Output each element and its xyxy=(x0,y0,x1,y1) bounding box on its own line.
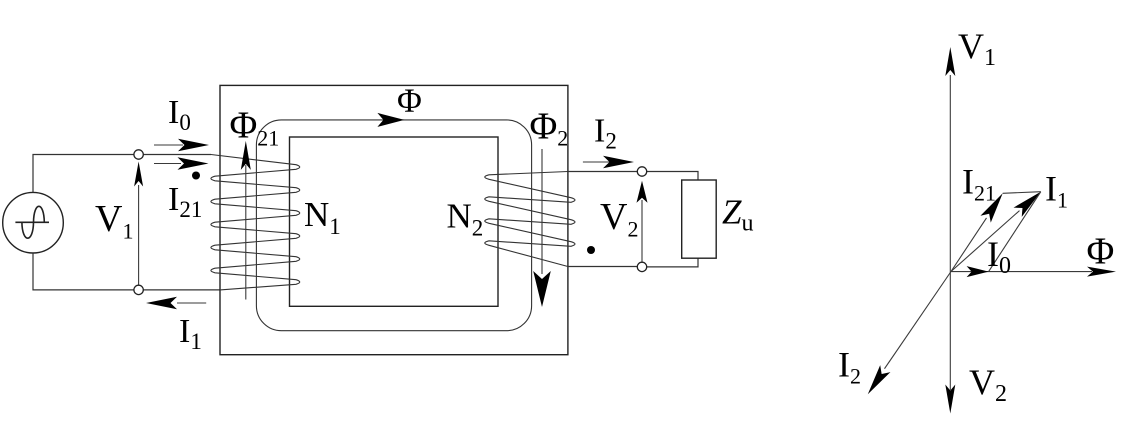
phasor I1 xyxy=(951,211,1020,272)
svg-text:V1: V1 xyxy=(958,26,996,71)
winding N1 xyxy=(211,155,300,290)
svg-text:Φ: Φ xyxy=(1087,231,1115,273)
wire source top xyxy=(33,155,134,193)
flux arrow head on top flux line xyxy=(377,113,404,127)
V2 voltage arrow xyxy=(641,200,643,262)
svg-text:Zu: Zu xyxy=(722,193,753,237)
AC source V1 circle xyxy=(3,192,64,253)
core window rectangle xyxy=(290,137,499,306)
phasor I21 xyxy=(951,218,987,272)
wire top terminal to winding xyxy=(143,154,211,156)
AC source sine symbol xyxy=(15,206,49,238)
flux path rounded rectangle xyxy=(256,120,531,331)
vertical axis V1/V2 xyxy=(949,75,951,390)
svg-text:I21: I21 xyxy=(168,181,202,222)
svg-text:I1: I1 xyxy=(1045,169,1068,213)
svg-text:I2: I2 xyxy=(594,113,617,154)
svg-text:V1: V1 xyxy=(95,198,133,244)
svg-text:I21: I21 xyxy=(962,161,996,205)
svg-text:N1: N1 xyxy=(304,195,341,239)
svg-text:I0: I0 xyxy=(987,234,1011,279)
load Zu rectangle xyxy=(682,180,717,258)
I2 current arrow xyxy=(583,161,612,163)
svg-text:V2: V2 xyxy=(600,196,638,242)
phasor I0 xyxy=(967,266,989,277)
secondary top wire xyxy=(568,172,698,181)
horizontal axis Phi xyxy=(951,271,1092,273)
core outer rectangle xyxy=(220,85,568,354)
polarity dot primary xyxy=(192,172,200,180)
svg-text:I2: I2 xyxy=(838,345,861,389)
phasor I2 xyxy=(885,272,952,369)
svg-text:Φ21: Φ21 xyxy=(230,105,280,151)
I21 current arrow xyxy=(154,163,181,165)
svg-text:Φ: Φ xyxy=(397,83,422,120)
svg-text:I0: I0 xyxy=(168,94,191,135)
Phi21 flux arrow (up) xyxy=(245,165,247,300)
terminal bottom right xyxy=(637,262,646,271)
terminal top left xyxy=(134,150,143,159)
wire source bottom xyxy=(33,253,134,290)
V1 voltage arrow xyxy=(138,185,140,285)
svg-text:Φ2: Φ2 xyxy=(530,106,569,151)
I0 current arrow xyxy=(154,144,183,146)
svg-text:V2: V2 xyxy=(969,362,1007,407)
parallelogram top side xyxy=(1003,192,1041,194)
svg-text:I1: I1 xyxy=(179,313,202,354)
terminal bottom left xyxy=(134,285,143,294)
wire bottom to core xyxy=(143,289,220,291)
terminal top right xyxy=(637,167,646,176)
parallelogram right side xyxy=(989,192,1041,272)
Phi2 flux arrow (down) xyxy=(541,149,543,274)
secondary bottom wire xyxy=(568,258,698,267)
polarity dot secondary xyxy=(587,246,595,254)
svg-text:N2: N2 xyxy=(447,196,484,240)
I1 current arrow (left) xyxy=(177,302,206,304)
winding N2 xyxy=(485,172,575,267)
